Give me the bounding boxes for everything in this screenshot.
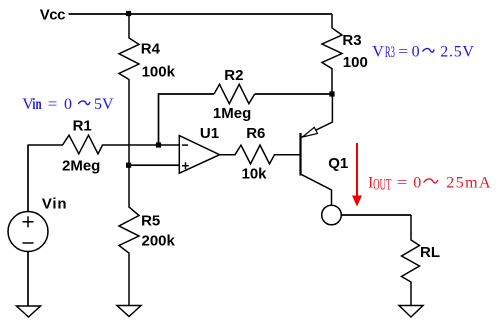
node junction R3 R2 emitter [329,91,334,96]
resistor R4 [119,14,139,165]
wire output to RL [341,214,411,216]
svg-text:RL: RL [420,244,440,261]
node junction R2 to inverting input [156,142,161,147]
svg-text:Vcc: Vcc [40,6,65,23]
svg-text:R2: R2 [224,67,243,84]
op-amp U1 [179,136,219,174]
label R3 [342,32,361,49]
label Q1 [328,155,348,172]
svg-text:25mA: 25mA [446,174,492,191]
output connector circle [322,205,342,225]
wire R2 right lead [255,93,332,95]
label R1 [73,118,92,135]
resistor R2 [214,84,255,103]
wire Vcc rail [69,13,333,15]
annotation Vin range [22,96,114,113]
svg-text:100k: 100k [142,64,176,81]
svg-text:=: = [397,174,408,191]
svg-text:R6: R6 [246,125,265,142]
label R2 [224,67,243,84]
resistor R5 [119,165,139,305]
value 10k [242,165,268,182]
svg-text:R3: R3 [342,32,361,49]
svg-text:2Meg: 2Meg [62,158,100,175]
node junction divider to noninverting input [126,163,131,168]
svg-text:R5: R5 [141,212,160,229]
resistor RL [402,215,420,306]
svg-text:V: V [372,44,384,61]
svg-text:Q1: Q1 [328,155,348,172]
label R4 [141,41,161,58]
svg-text:10k: 10k [242,165,268,182]
ground under Vin [17,306,41,317]
annotation VR3 range [372,44,474,61]
annotation Iout range [368,174,492,193]
svg-text:R3: R3 [385,44,395,61]
svg-text:=: = [398,44,408,61]
value 100k [142,64,176,81]
transistor Q1 [301,94,333,205]
svg-text:1Meg: 1Meg [213,105,251,122]
node junction R4 top [126,11,131,16]
svg-text:U1: U1 [200,125,219,142]
ground under RL [399,306,423,318]
svg-text:=: = [48,96,58,113]
value 2Meg [62,158,100,175]
svg-text:200k: 200k [142,233,176,250]
source Vin [8,212,48,252]
resistor R1 [28,135,180,154]
resistor R6 [220,145,301,164]
resistor R3 [322,14,342,94]
label Vcc [40,6,65,23]
svg-text:100: 100 [343,54,368,71]
wire Vin bottom [27,252,29,307]
ground under R5 [117,306,141,317]
label U1 [200,125,219,142]
label R6 [246,125,265,142]
svg-text:R1: R1 [73,118,92,135]
wire Vin top [27,145,29,212]
label R5 [141,212,160,229]
svg-text:0: 0 [413,174,421,191]
svg-text:0: 0 [412,44,420,61]
svg-text:OUT: OUT [373,177,392,194]
value 1Meg [213,105,251,122]
svg-text:0: 0 [64,96,72,113]
label RL [420,244,440,261]
wire noninverting input [129,164,179,166]
value 100 [343,54,368,71]
svg-text:in: in [32,96,41,113]
label Vin [42,196,67,213]
svg-text:5V: 5V [94,96,114,113]
value 200k [142,233,176,250]
wire R2 left lead [159,94,215,145]
svg-text:Vin: Vin [42,196,67,213]
current arrow Iout [352,143,362,207]
svg-text:R4: R4 [141,41,161,58]
svg-text:2.5V: 2.5V [440,44,474,61]
